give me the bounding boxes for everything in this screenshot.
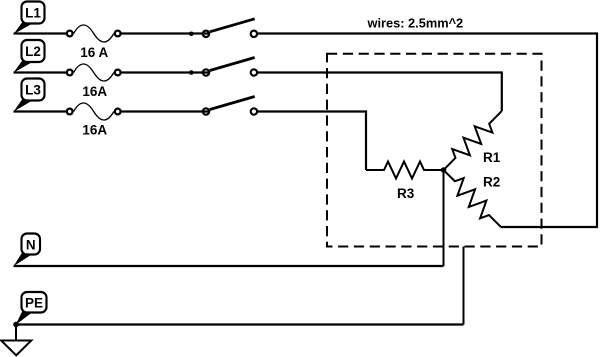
wire F3 to switch SW3 — [122, 110, 210, 112]
svg-text:L1: L1 — [25, 6, 41, 21]
node N flag label — [14, 234, 41, 267]
svg-text:16A: 16A — [82, 84, 107, 99]
switch SW3 — [203, 97, 257, 115]
wire L1 to fuse F1 — [14, 32, 67, 34]
node L3 flag label — [14, 79, 45, 112]
wire L3 to fuse F3 — [14, 110, 67, 112]
junction dot row2 — [189, 70, 194, 75]
switch SW2 — [203, 58, 257, 76]
svg-text:wires: 2.5mm^2: wires: 2.5mm^2 — [367, 16, 464, 31]
svg-text:16A: 16A — [82, 123, 107, 138]
svg-text:R2: R2 — [483, 175, 500, 190]
fuse F1 — [67, 25, 121, 42]
wire SW2 right then down to R1 top — [258, 73, 502, 112]
resistor R3 — [366, 162, 444, 179]
fuse F2 — [67, 64, 121, 81]
ground symbol — [1, 325, 31, 356]
wire star point down to N — [443, 170, 445, 266]
resistor R2 — [438, 164, 507, 233]
svg-text:R1: R1 — [483, 150, 501, 165]
junction dot row1 — [189, 32, 194, 37]
node PE flag label — [16, 292, 47, 325]
wire chassis to PE — [463, 247, 465, 325]
fuse F3 — [67, 103, 121, 120]
junction dot PE — [13, 322, 19, 328]
dashed enclosure box — [327, 54, 542, 247]
resistor R1 — [437, 105, 507, 176]
wire N — [14, 265, 444, 267]
node L2 flag label — [14, 40, 45, 73]
svg-text:16 A: 16 A — [80, 45, 108, 60]
node star-point junction dot — [441, 167, 447, 173]
wire F2 to switch SW2 — [122, 71, 210, 73]
node L1 flag label — [14, 2, 45, 35]
svg-text:R3: R3 — [397, 186, 415, 201]
svg-text:N: N — [26, 238, 36, 253]
wire SW3 right then down to R3 left — [258, 112, 366, 171]
wire F1 to switch SW1 — [122, 32, 210, 34]
svg-text:PE: PE — [25, 296, 43, 311]
wire PE — [16, 323, 464, 325]
wire L2 to fuse F2 — [14, 71, 67, 73]
svg-text:L3: L3 — [25, 83, 41, 98]
switch SW1 — [203, 19, 257, 37]
wire SW1 to right side, down, to R2 bottom — [258, 34, 597, 228]
svg-text:L2: L2 — [25, 44, 41, 59]
